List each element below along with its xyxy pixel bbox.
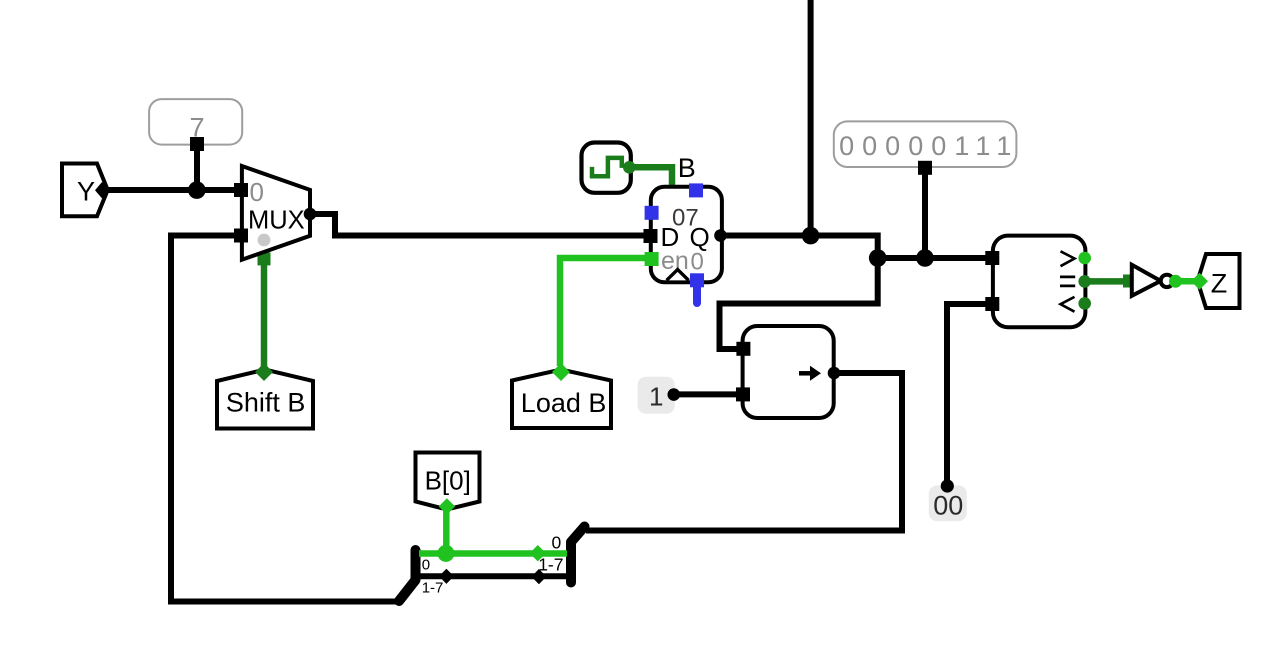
wire Load B to register en (green, value 1) [560,258,646,366]
pin mux in0 square [234,183,248,197]
svg-text:0: 0 [552,533,562,553]
svg-text:Z: Z [1211,268,1228,298]
pin Y tip diamond [95,182,109,198]
svg-text:1: 1 [649,382,663,412]
label comparator less [1061,297,1075,312]
node diamond on 1-7 wire left [439,569,454,584]
svg-text:1-7: 1-7 [538,554,563,574]
wire comparator row down-left to barrel shifter in1 [720,258,878,349]
wire constant 1 to shifter in2 [676,391,738,397]
wire splitter bit0 link (green, value 1) [419,550,567,557]
pin mux in1 square [234,229,248,243]
svg-text:0: 0 [422,556,430,573]
NOT gate U5 triangle [1132,265,1161,296]
node junction at (197,190) [188,181,206,199]
node mux gray dot [258,234,271,247]
pin register left blue square [645,206,659,220]
wire register Q to comparator in1 [721,236,990,259]
NOT gate bubble [1161,275,1173,287]
splitter S1 bar and input diagonal (left) [399,550,416,601]
wire vertical from top edge [808,0,814,236]
shifter arrow glyph [799,371,811,376]
svg-text:00: 00 [933,491,963,521]
svg-text:1-7: 1-7 [422,580,444,597]
svg-text:MUX: MUX [248,207,305,235]
pin Load B diamond (bright green) [552,363,570,381]
pin mux output dot [304,208,317,221]
pin clock output dot (dark green) [623,161,636,174]
svg-text:Shift B: Shift B [226,387,306,417]
pin register Q output dot [714,229,727,242]
node diamond on 1-7 wire right [531,569,546,584]
node junction at (925,258) [916,249,934,267]
svg-text:Load B: Load B [521,388,607,418]
mux U1 trapezoid [242,166,310,260]
output Z flag [1198,254,1240,308]
splitter S2 bar and output diagonal (right) [571,527,585,583]
wire constant 00000111 drop [922,165,928,258]
node junction at (877.7,258) [869,249,887,267]
pin B[0] diamond (bright green) [439,498,455,514]
pin comparator > output dot (bright green) [1078,252,1091,265]
clock CLK component [582,143,631,193]
pin NOT gate input square [1123,275,1136,288]
wire Shift B to MUX select (dark green, value 0) [261,252,268,369]
pin NOT output dot (bright green) [1169,275,1182,288]
wire NOT output to Z (bright green, value 1) [1175,278,1199,285]
svg-text:00000111: 00000111 [839,131,1019,161]
wire splitter bits 1-7 link [419,573,567,579]
register U2 body [651,187,722,283]
wire comparator = output to NOT gate (dark green) [1085,278,1124,285]
value label 00 (gray value box) [929,486,967,522]
wire blue stub below register [693,285,701,303]
pin comparator = output dot (dark green) [1078,275,1091,288]
pin constant 00000111 square [918,161,932,175]
pin shifter in2 square [736,387,750,401]
output B[0] flag [416,453,480,510]
input Load B flag [512,370,611,429]
constant C3 value 00000111 [834,121,1017,167]
node green junction at (446,553.5) [437,545,454,562]
wire clock to register C (dark green, value 0) [629,167,672,189]
pin MUX select square [258,252,271,265]
label comparator equal [1060,277,1075,286]
wire Y to MUX in0 [108,187,241,193]
svg-text:0: 0 [250,177,264,207]
wire MUX output to register D [310,214,650,236]
pin register en square (bright green) [645,252,659,266]
pin Shift B diamond (dark green) [255,363,273,381]
wire shifter output right-down-left to right splitter [586,373,902,531]
pin Z diamond (bright green) [1191,273,1208,290]
pin shifter in1 square [736,342,750,356]
pin shifter output dot [828,367,841,380]
node green diamond on bit0 wire [530,545,546,561]
pin comparator in2 square [985,297,999,311]
clock waveform glyph [592,158,622,176]
svg-text:0: 0 [691,248,704,275]
constant C2 value 1 (gray value box) [638,377,675,414]
node junction at (810.6,235.5) [802,227,820,245]
pin register top blue square [689,183,703,197]
svg-text:Y: Y [77,177,95,207]
input Y flag [62,164,108,217]
constant C1 value 7 [149,99,242,145]
register clock triangle mark [667,270,689,281]
pin value-1 dot [668,388,681,401]
pin register D square [644,229,658,243]
barrel shifter U3 body [743,326,834,418]
label comparator greater [1061,251,1075,266]
input Shift B flag [217,370,313,429]
wire MUX in1 long left/bottom path [171,236,400,602]
pin constant 7 square [190,137,204,151]
pin register bottom blue square [690,273,704,287]
svg-text:B[0]: B[0] [425,466,471,496]
wire 00 probe to comparator in2 [947,304,990,486]
wire B[0] drop (green) [443,509,450,554]
pin comparator < output dot (dark green) [1078,297,1091,310]
pin comparator in1 square [985,251,999,265]
wire constant 7 drop [194,147,200,190]
comparator U4 body [993,236,1086,328]
svg-text:B: B [678,153,696,183]
node wire end dot at (947,486) [941,479,954,492]
